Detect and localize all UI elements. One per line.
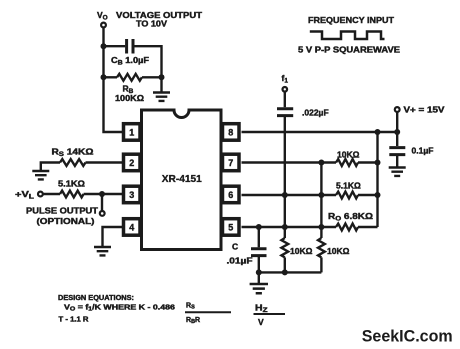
svg-text:(OPTIONAL): (OPTIONAL)	[37, 216, 95, 226]
svg-text:C: C	[232, 242, 238, 252]
svg-text:f1: f1	[282, 73, 289, 85]
svg-text:2: 2	[129, 158, 134, 168]
svg-text:5.1KΩ: 5.1KΩ	[58, 179, 85, 189]
svg-text:5: 5	[228, 222, 233, 232]
svg-text:0.1µF: 0.1µF	[412, 146, 434, 156]
svg-text:DESIGN EQUATIONS:: DESIGN EQUATIONS:	[58, 295, 134, 302]
svg-text:100KΩ: 100KΩ	[115, 93, 144, 103]
svg-text:XR-4151: XR-4151	[162, 174, 202, 185]
svg-text:VO: VO	[97, 10, 108, 22]
svg-text:VO = f1/K WHERE K - 0.486: VO = f1/K WHERE K - 0.486	[64, 305, 175, 313]
svg-text:FREQUENCY INPUT: FREQUENCY INPUT	[308, 15, 395, 25]
svg-text:T - 1.1 R: T - 1.1 R	[59, 316, 89, 323]
svg-text:+VL: +VL	[15, 189, 34, 201]
svg-text:10KΩ: 10KΩ	[327, 246, 350, 256]
svg-text:1: 1	[129, 127, 134, 137]
svg-text:8: 8	[228, 127, 233, 137]
svg-text:7: 7	[228, 158, 233, 168]
svg-text:10KΩ: 10KΩ	[290, 246, 313, 256]
svg-text:V+ = 15V: V+ = 15V	[404, 104, 445, 114]
svg-text:3: 3	[129, 190, 134, 200]
svg-text:RS 14KΩ: RS 14KΩ	[52, 147, 94, 159]
svg-text:HZ: HZ	[255, 302, 268, 314]
svg-text:SeekIC.com: SeekIC.com	[362, 326, 453, 345]
svg-text:10KΩ: 10KΩ	[337, 149, 360, 159]
svg-text:V: V	[258, 317, 264, 327]
svg-text:RO 6.8KΩ: RO 6.8KΩ	[328, 211, 373, 223]
svg-text:CB 1.0µF: CB 1.0µF	[111, 55, 149, 67]
svg-text:.022µF: .022µF	[302, 108, 329, 118]
svg-text:RBR: RBR	[186, 317, 200, 325]
svg-text:PULSE OUTPUT: PULSE OUTPUT	[26, 206, 99, 216]
svg-text:5 V P-P SQUAREWAVE: 5 V P-P SQUAREWAVE	[298, 45, 400, 55]
svg-text:.01µF: .01µF	[227, 256, 253, 266]
svg-text:5.1KΩ: 5.1KΩ	[336, 181, 361, 191]
svg-text:TO 10V: TO 10V	[136, 19, 167, 29]
svg-text:4: 4	[129, 222, 134, 232]
svg-text:RS: RS	[186, 303, 195, 311]
svg-text:6: 6	[228, 190, 233, 200]
